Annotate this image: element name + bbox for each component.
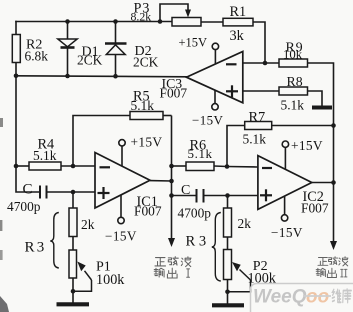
capacitor C right (172, 183, 258, 221)
svg-text:10k: 10k (283, 48, 303, 62)
resistor R4 (16, 137, 95, 171)
brace R3 right (186, 213, 221, 282)
output arrow II (330, 241, 337, 250)
node R4/R5 junction (71, 164, 76, 169)
svg-text:C: C (23, 182, 33, 198)
svg-text:2CK: 2CK (77, 53, 103, 68)
resistor R5 (73, 89, 172, 167)
svg-text:−15V: −15V (192, 113, 224, 128)
svg-text:2k: 2k (81, 217, 95, 232)
ground (left) (57, 302, 90, 306)
svg-text:+15V: +15V (131, 135, 163, 150)
op-amp IC3 (160, 52, 243, 103)
watermark box (251, 284, 353, 312)
node R6 branch (169, 164, 174, 169)
svg-text:R 3: R 3 (186, 234, 207, 250)
svg-text:2CK: 2CK (133, 55, 159, 70)
svg-text:R7: R7 (249, 110, 266, 126)
ground (R8) (312, 106, 332, 110)
svg-text:C: C (181, 183, 190, 198)
output arrow I (168, 238, 175, 247)
svg-text:4700p: 4700p (178, 206, 212, 221)
resistor R9 (279, 41, 308, 68)
svg-text:8.2k: 8.2k (131, 10, 152, 24)
svg-text:6.8k: 6.8k (25, 49, 49, 64)
node D1 top (65, 19, 70, 24)
node IC1 output (169, 179, 174, 184)
resistor R2 (12, 35, 48, 64)
node D2 top (113, 19, 118, 24)
svg-text:F007: F007 (301, 201, 329, 216)
svg-text:WeeQ: WeeQ (253, 287, 307, 308)
label sine output II (Chinese) (316, 257, 348, 278)
-15V terminal IC3 (192, 90, 224, 127)
node C/2k junction right (225, 193, 230, 198)
wire IC3 non-inverting input (243, 90, 279, 92)
wire bottom diode rail (16, 76, 187, 77)
brace R3 left (25, 213, 59, 269)
svg-text:oo: oo (306, 287, 329, 308)
watermark WeeQoo text (253, 287, 331, 308)
-15V terminal IC1 (105, 195, 137, 244)
node R7/R9 junction (331, 123, 336, 128)
svg-text:3k: 3k (230, 28, 245, 44)
svg-text:5.1k: 5.1k (243, 132, 267, 147)
svg-text:+15V: +15V (291, 138, 323, 153)
wire IC3 inverting input (243, 62, 279, 64)
resistor R8 (279, 74, 308, 113)
+15V terminal IC3 (179, 36, 219, 65)
wire left rail (15, 22, 17, 35)
node R4/left rail (14, 164, 19, 169)
node P1 bottom (71, 289, 76, 294)
resistor R1 (223, 4, 253, 44)
node D2 bottom (113, 74, 118, 79)
diode D1 (58, 22, 77, 77)
svg-text:F007: F007 (160, 86, 188, 101)
svg-text:4700p: 4700p (7, 199, 41, 214)
resistor R6 (172, 138, 228, 171)
+15V terminal IC1 (119, 135, 163, 167)
diode D2 (105, 22, 127, 77)
potentiometer P2 (224, 250, 277, 304)
wire R1 to inverting node (253, 22, 265, 63)
op-amp IC1 (95, 153, 172, 219)
resistor 2k left (69, 192, 95, 250)
svg-text:5.1k: 5.1k (281, 98, 305, 113)
node R1/R9 junction (263, 61, 268, 66)
potentiometer P1 (69, 250, 125, 303)
wire right rail / IC2 output (333, 126, 335, 243)
edge noise marks (0, 118, 3, 127)
resistor R7 (227, 110, 334, 167)
node D1 bottom (65, 74, 70, 79)
potentiometer P3 (131, 1, 224, 27)
svg-text:R1: R1 (230, 4, 247, 20)
-15V terminal IC2 (271, 196, 303, 240)
svg-text:R3: R3 (25, 240, 47, 256)
svg-text:2k: 2k (238, 216, 252, 231)
svg-text:−15V: −15V (105, 229, 137, 244)
node IC2 output (331, 180, 336, 185)
label sine output I (Chinese) (154, 257, 191, 278)
resistor 2k right (224, 196, 252, 250)
svg-text:+15V: +15V (179, 36, 208, 50)
svg-text:100k: 100k (96, 272, 125, 288)
node P2 bottom (225, 290, 230, 295)
svg-text:F007: F007 (134, 204, 162, 219)
svg-text:−15V: −15V (271, 225, 303, 240)
wire top rail (16, 21, 172, 23)
svg-text:5.1k: 5.1k (131, 98, 155, 113)
node R6/R7 junction (225, 164, 230, 169)
svg-text:R8: R8 (287, 74, 303, 89)
+15V terminal IC2 (282, 138, 323, 169)
node R2 bottom (14, 74, 19, 79)
svg-text:5.1k: 5.1k (188, 146, 213, 161)
capacitor C left (7, 182, 95, 215)
op-amp IC2 (227, 156, 334, 216)
node C/2k junction (71, 190, 76, 195)
wire R9 to right rail (308, 63, 334, 126)
wire R8 to ground (308, 91, 323, 106)
watermark Chinese 维库 (332, 289, 351, 303)
node cap branch (169, 193, 174, 198)
ground (right) (212, 303, 244, 307)
svg-text:5.1k: 5.1k (33, 148, 57, 163)
wire IC1 output vertical rail (171, 116, 173, 241)
